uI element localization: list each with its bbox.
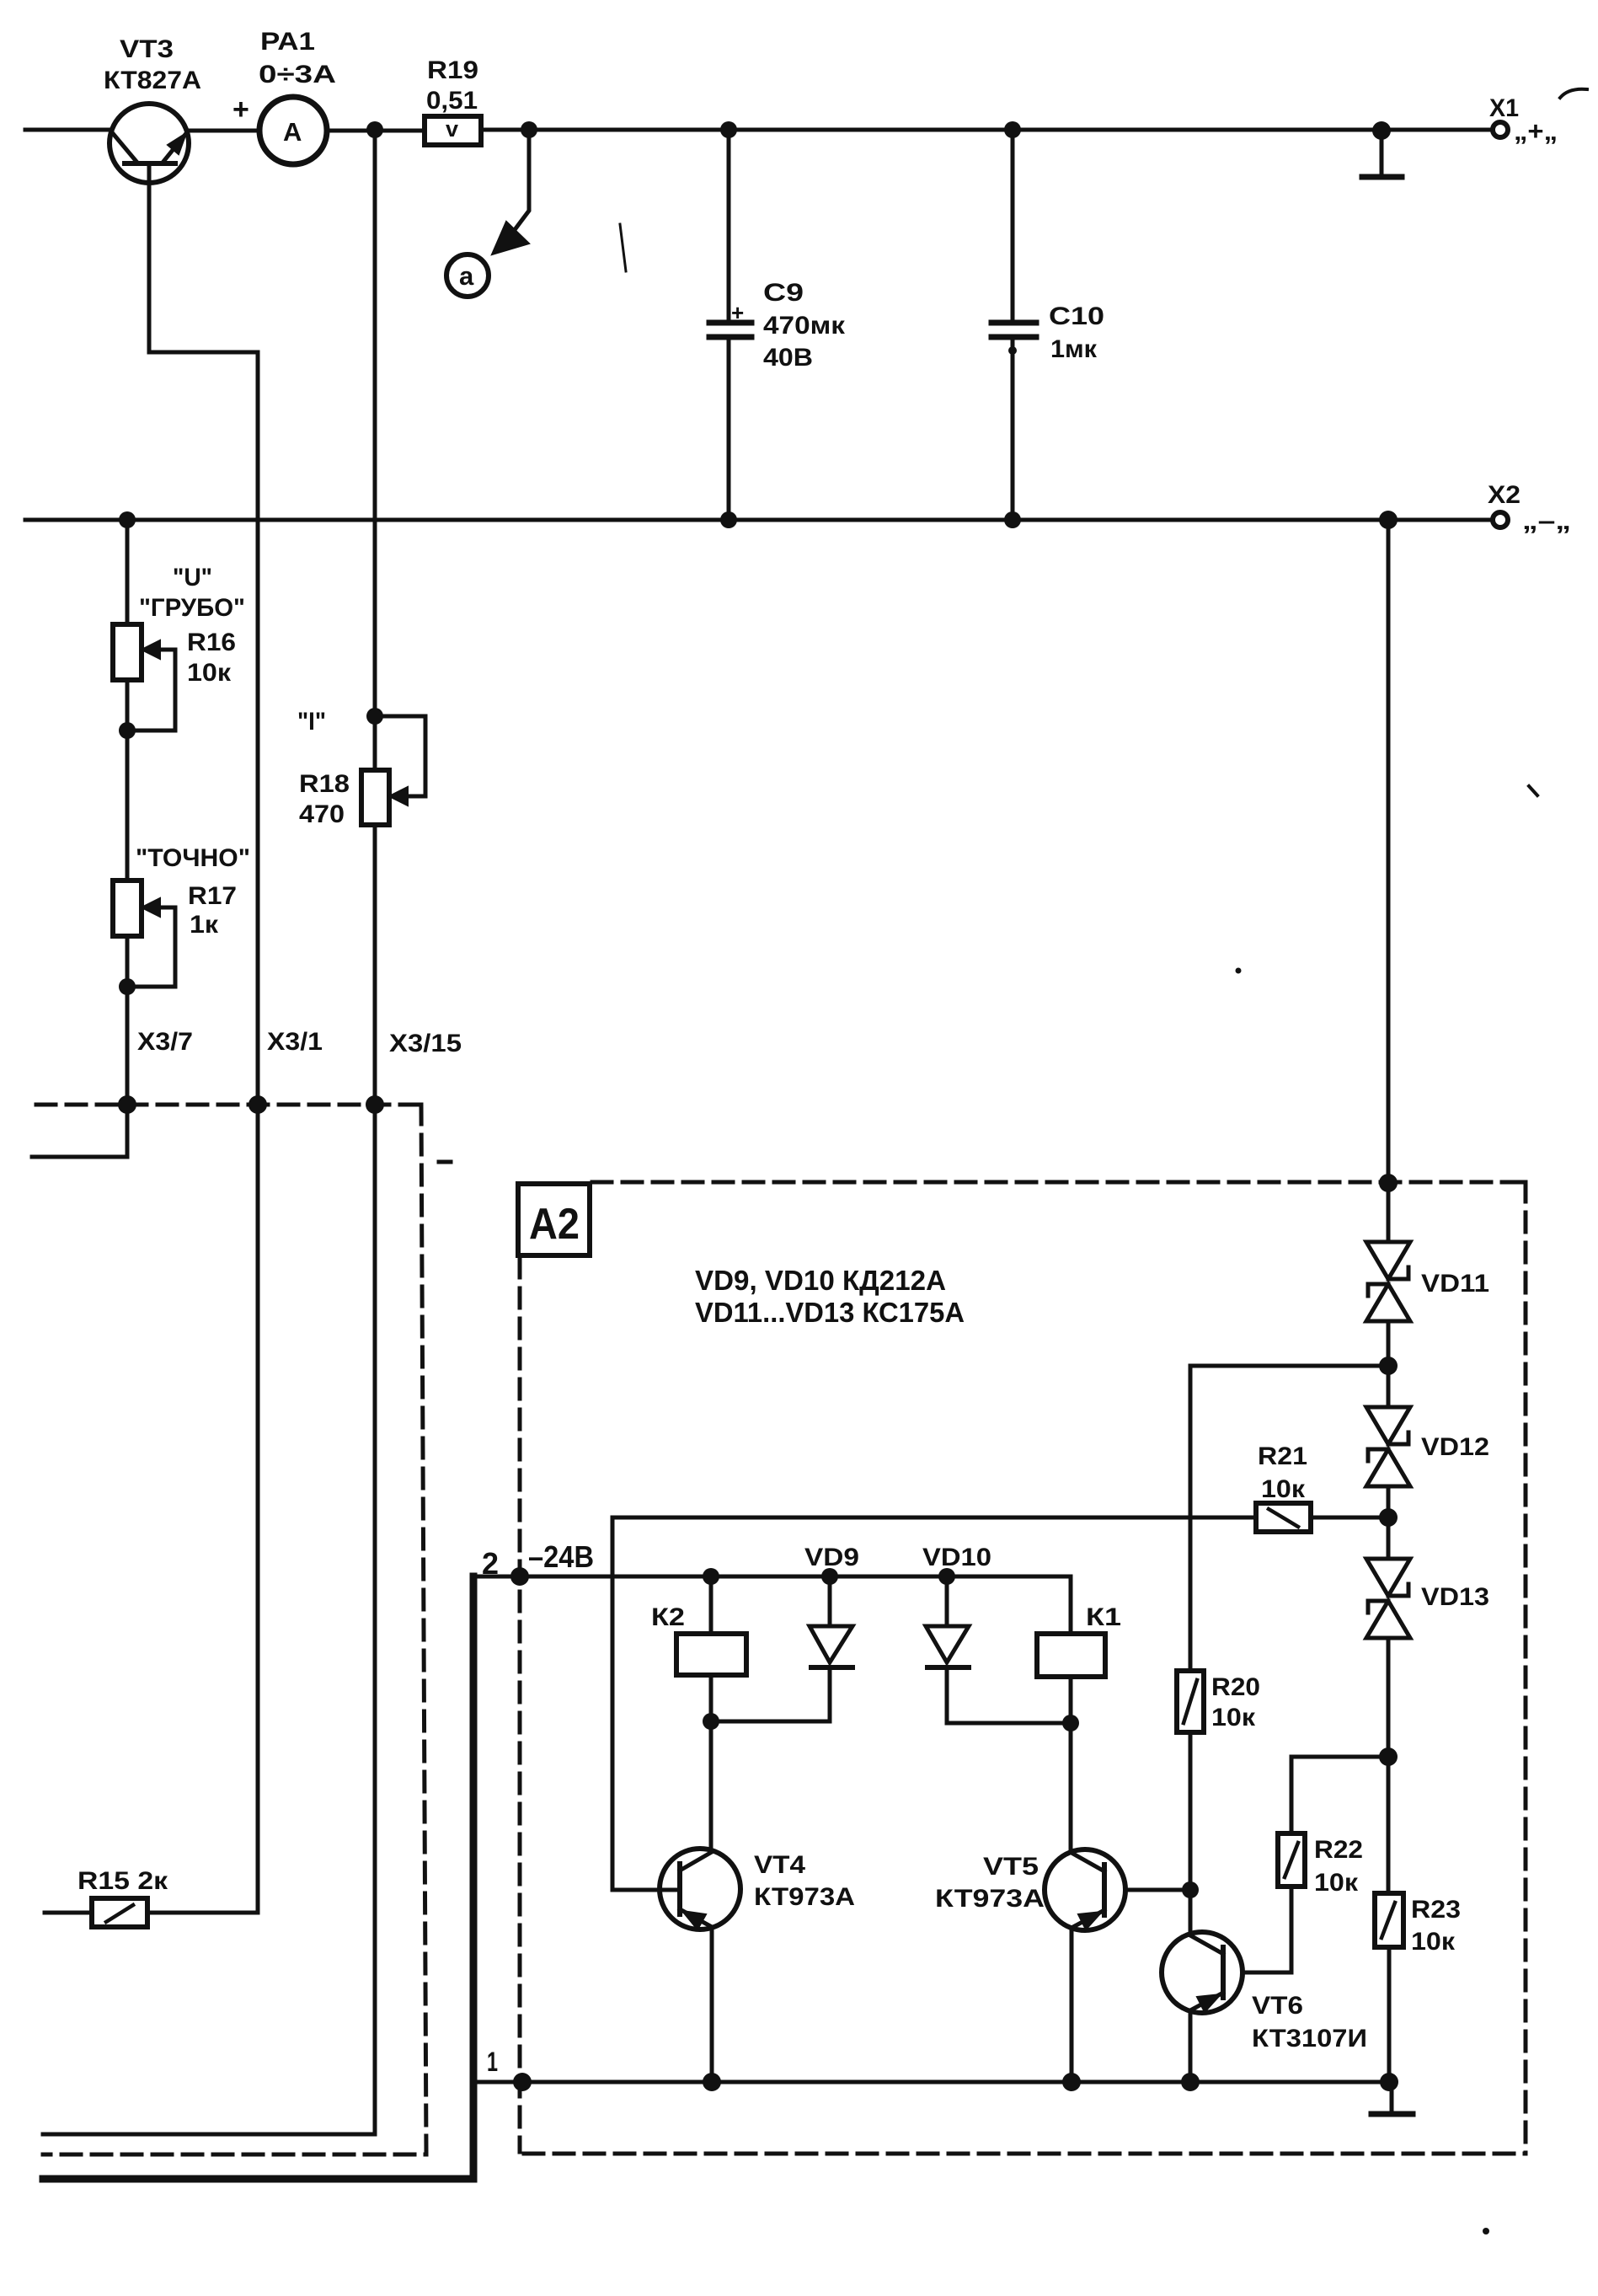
thick external wire — [43, 1576, 473, 2179]
zener VD11 — [1366, 1242, 1410, 1321]
node K1 bottom — [1062, 1715, 1079, 1731]
node A2 left edge rail 2 — [510, 1567, 529, 1586]
wire VT4 base net — [612, 1517, 1256, 1890]
node X2 right — [1379, 511, 1398, 529]
wire arrow to point a — [492, 138, 529, 254]
stray tick mark right — [1529, 786, 1537, 795]
svg-text:10к: 10к — [1411, 1928, 1456, 1956]
block A2 dashed outline right — [1524, 1182, 1528, 2154]
stray dash mark — [439, 1160, 451, 1164]
svg-text:VT6: VT6 — [1252, 1992, 1303, 2020]
svg-text:X3/15: X3/15 — [389, 1030, 462, 1057]
ground chassis bottom — [1371, 2082, 1413, 2114]
svg-text:R20: R20 — [1211, 1673, 1260, 1701]
wire -24V rail — [472, 1575, 1071, 1579]
potentiometer R18 — [361, 716, 425, 825]
svg-text:„+„: „+„ — [1514, 116, 1558, 146]
resistor R22 — [1278, 1757, 1388, 1972]
node K2 top — [703, 1568, 719, 1585]
stray mark near X1 — [1560, 89, 1587, 98]
svg-text:"ГРУБО": "ГРУБО" — [139, 594, 245, 622]
ammeter PA1 — [259, 97, 327, 164]
capacitor C9 — [709, 130, 751, 520]
wire node to R20 column — [1190, 1364, 1388, 1368]
svg-text:КТ973А: КТ973А — [754, 1883, 855, 1911]
wire column A from X2 — [126, 520, 130, 624]
wire VD11 to VD12 — [1387, 1321, 1391, 1407]
svg-text:R23: R23 — [1411, 1896, 1461, 1924]
svg-text:10к: 10к — [1314, 1869, 1359, 1897]
wire column C down to exit — [43, 825, 375, 2134]
svg-text:0,51: 0,51 — [426, 87, 478, 115]
transistor VT3 — [110, 104, 189, 352]
svg-text:РА1: РА1 — [260, 28, 315, 56]
svg-text:VD12: VD12 — [1421, 1433, 1489, 1461]
wire column B VT3 base — [149, 352, 258, 1913]
svg-text:1мк: 1мк — [1050, 335, 1098, 363]
svg-text:+: + — [731, 300, 744, 325]
node VT5 emitter — [1062, 2073, 1081, 2091]
svg-text:VD9, VD10 КД212А: VD9, VD10 КД212А — [695, 1265, 946, 1296]
svg-text:R18: R18 — [299, 770, 350, 798]
resistor R19 — [425, 116, 481, 145]
svg-text:v: v — [446, 116, 458, 142]
wire R16 to R17 — [126, 680, 130, 880]
node VD10 top — [938, 1568, 955, 1585]
stray dot bottom right — [1483, 2228, 1489, 2234]
diode VD10 — [926, 1576, 1071, 1723]
block A2 label box — [518, 1184, 590, 1255]
stray dot middle — [1236, 968, 1242, 974]
node C9 bottom — [720, 511, 737, 528]
node C9 top — [720, 121, 737, 138]
wire rail 1 — [473, 2080, 1389, 2085]
node C10 top — [1004, 121, 1021, 138]
svg-text:40В: 40В — [763, 344, 813, 372]
node VD11 bottom — [1379, 1357, 1398, 1375]
ground chassis top — [1362, 131, 1402, 177]
svg-text:+: + — [232, 94, 249, 126]
node VT6 emitter — [1181, 2073, 1200, 2091]
node R23 bottom — [1380, 2073, 1398, 2091]
svg-text:С10: С10 — [1049, 302, 1104, 330]
node VT4 emitter — [703, 2073, 721, 2091]
node A2 top edge — [1379, 1174, 1398, 1192]
wire R17 down to exit — [32, 936, 127, 1157]
terminal X1 — [1493, 122, 1508, 137]
wire VD13 down — [1387, 1638, 1391, 1893]
diode VD9 — [711, 1576, 852, 1721]
node R22 branch — [1379, 1747, 1398, 1766]
wire X2 column down — [1387, 520, 1391, 1242]
node R21 right — [1379, 1508, 1398, 1527]
svg-text:А2: А2 — [529, 1200, 580, 1249]
svg-text:VD9: VD9 — [804, 1544, 859, 1571]
svg-text:R16: R16 — [187, 629, 236, 656]
node X2 column A — [119, 511, 136, 528]
block A2 dashed outline top — [592, 1180, 1526, 1185]
svg-text:"U": "U" — [173, 564, 212, 591]
svg-text:X3/1: X3/1 — [267, 1028, 323, 1056]
stray mark slant — [620, 224, 626, 271]
svg-text:10к: 10к — [187, 659, 232, 687]
wire X2 rail — [25, 518, 1492, 522]
svg-text:Х2: Х2 — [1488, 481, 1521, 509]
transistor VT5 — [1045, 1723, 1190, 2082]
svg-text:–24В: –24В — [528, 1539, 594, 1574]
node K2 bottom — [703, 1713, 719, 1730]
svg-text:С9: С9 — [763, 279, 804, 307]
svg-text:R17: R17 — [188, 882, 237, 910]
wire PA1 to node — [327, 129, 425, 133]
svg-text:"I": "I" — [297, 708, 326, 736]
svg-text:VT5: VT5 — [983, 1853, 1039, 1881]
svg-text:КТ3107И: КТ3107И — [1252, 2025, 1367, 2052]
dashed block A1 edge — [43, 1105, 426, 2154]
node a — [446, 254, 489, 297]
node R18 wiper top — [366, 708, 383, 725]
svg-text:0÷3А: 0÷3А — [259, 61, 336, 88]
node C10 bottom — [1004, 511, 1021, 528]
node X3/15 — [366, 1095, 384, 1114]
svg-text:470мк: 470мк — [763, 312, 846, 340]
svg-text:„–„: „–„ — [1522, 506, 1571, 535]
node X3/1 — [249, 1095, 267, 1114]
svg-text:10к: 10к — [1261, 1475, 1306, 1503]
node rail1 A2 edge — [513, 2073, 532, 2091]
wire VD12 to VD13 — [1387, 1486, 1391, 1559]
node X3/7 — [118, 1095, 136, 1114]
block A2 dashed outline left — [518, 1258, 522, 2152]
node VT5 base — [1182, 1881, 1199, 1898]
node R17 wiper join — [119, 978, 136, 995]
node ground tap — [1372, 121, 1391, 140]
svg-text:VT4: VT4 — [754, 1851, 805, 1879]
svg-text:"ТОЧНО": "ТОЧНО" — [136, 844, 250, 872]
svg-text:R22: R22 — [1314, 1836, 1363, 1864]
svg-text:2: 2 — [482, 1546, 499, 1581]
svg-text:VD10: VD10 — [922, 1544, 991, 1571]
svg-text:1: 1 — [487, 2047, 498, 2077]
svg-text:R15 2к: R15 2к — [77, 1867, 168, 1895]
svg-text:КТ827А: КТ827А — [104, 67, 201, 94]
svg-text:470: 470 — [299, 800, 345, 828]
svg-text:А: А — [283, 117, 302, 147]
svg-text:VD11...VD13 КС175А: VD11...VD13 КС175А — [695, 1297, 965, 1328]
svg-text:R21: R21 — [1258, 1442, 1307, 1470]
resistor R20 — [1177, 1366, 1204, 1890]
svg-text:VT3: VT3 — [120, 35, 174, 63]
wire column C top — [373, 130, 377, 770]
resistor R23 — [1375, 1893, 1403, 2082]
resistor R15 — [45, 1898, 258, 1927]
svg-text:R19: R19 — [427, 56, 478, 84]
zener VD13 — [1366, 1559, 1410, 1638]
block A2 dashed outline bottom — [524, 2152, 1526, 2156]
potentiometer R16 — [113, 624, 175, 731]
svg-text:VD13: VD13 — [1421, 1583, 1489, 1611]
transistor VT6 — [1162, 1890, 1291, 2082]
capacitor C10 — [991, 130, 1036, 520]
node at R18 column top — [366, 121, 383, 138]
relay K2 — [676, 1576, 746, 1721]
resistor R21 — [1256, 1503, 1388, 1532]
node R16 wiper join — [119, 722, 136, 739]
relay K1 — [1037, 1576, 1105, 1723]
zener VD12 — [1366, 1407, 1410, 1486]
svg-text:КТ973А: КТ973А — [935, 1885, 1045, 1913]
wire top rail left — [25, 128, 110, 132]
svg-text:10к: 10к — [1211, 1704, 1256, 1731]
dashed connector line X3 — [36, 1103, 421, 1107]
svg-text:а: а — [459, 261, 474, 291]
terminal X2 — [1493, 512, 1508, 527]
svg-text:VD11: VD11 — [1421, 1270, 1489, 1298]
svg-text:К1: К1 — [1086, 1603, 1121, 1631]
node VD9 top — [821, 1568, 838, 1585]
svg-text:К2: К2 — [651, 1603, 685, 1631]
node after R19 — [521, 121, 537, 138]
wire VT3 to PA1 — [187, 129, 260, 133]
wire R19 to X1 — [481, 128, 1492, 132]
svg-text:1к: 1к — [190, 911, 219, 939]
potentiometer R17 — [113, 880, 175, 987]
transistor VT4 — [612, 1721, 740, 2082]
svg-text:X3/7: X3/7 — [137, 1028, 193, 1056]
